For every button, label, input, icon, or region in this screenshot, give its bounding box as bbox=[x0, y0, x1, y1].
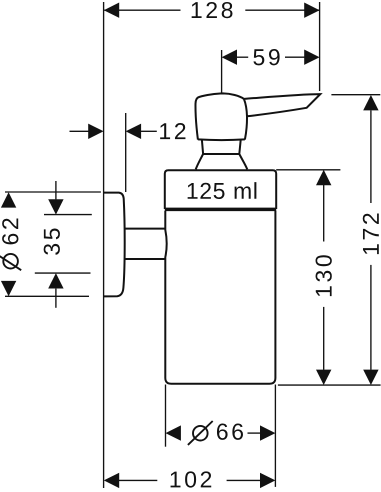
12 extension line (plate front) bbox=[125, 113, 127, 192]
wall plate bbox=[104, 193, 125, 297]
dim 12 bbox=[70, 130, 89, 132]
59 left extension line bbox=[221, 50, 223, 93]
dim 130 bbox=[323, 185, 325, 242]
pump head and spout outline bbox=[195, 93, 320, 139]
bottom extension line (container bottom) bbox=[278, 384, 381, 386]
right extension line (128/59) bbox=[319, 2, 321, 91]
pump head bottom line bbox=[198, 138, 245, 141]
wall line bbox=[103, 2, 105, 488]
container body bbox=[165, 211, 275, 384]
dim diameter 66 bbox=[165, 385, 167, 447]
holder band bbox=[165, 170, 276, 209]
172 top extension line (spout top) bbox=[331, 94, 380, 96]
dim 128 bbox=[104, 9, 180, 11]
130 top extension line (band top) bbox=[276, 169, 340, 171]
dim 172 bbox=[370, 110, 372, 203]
dim 102 bbox=[119, 479, 157, 481]
dim 59 bbox=[237, 56, 248, 58]
arm bbox=[125, 228, 166, 230]
dim 35 bbox=[55, 181, 57, 199]
holder band thick bottom line bbox=[165, 208, 276, 212]
125 ml label bbox=[188, 182, 257, 199]
dim diameter 62 bbox=[5, 191, 101, 193]
pump neck bbox=[196, 140, 248, 170]
